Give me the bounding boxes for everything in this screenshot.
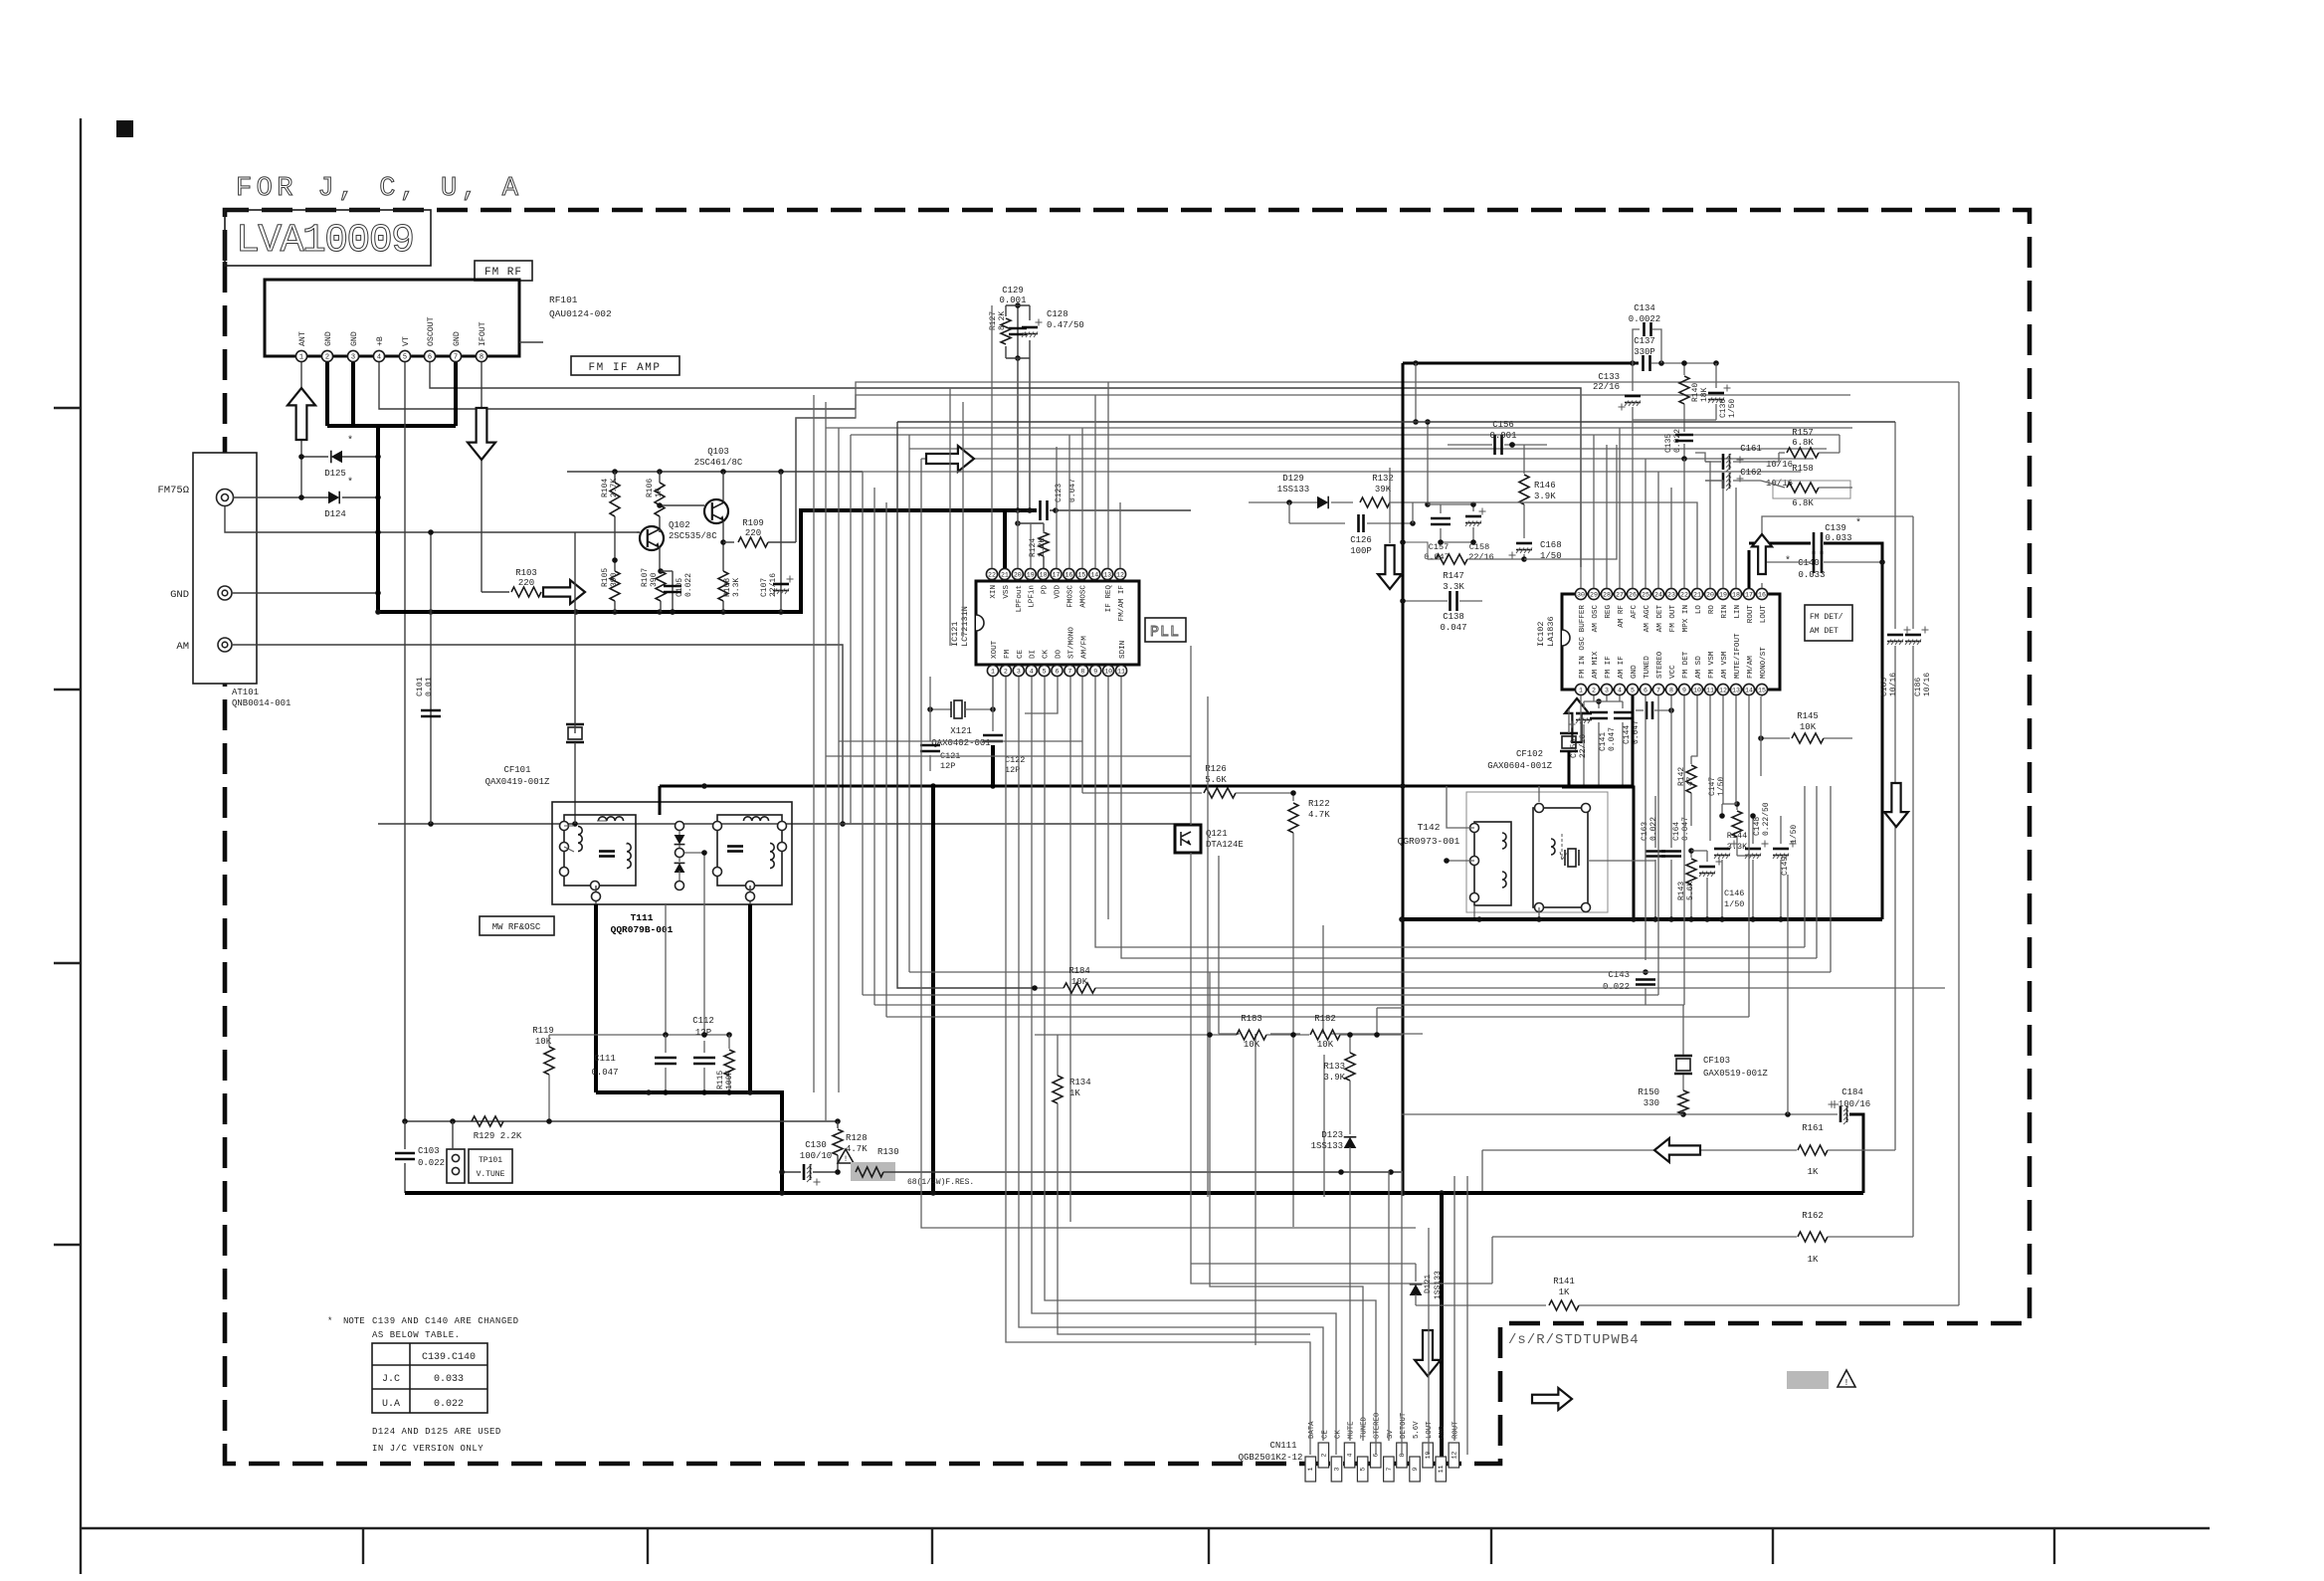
transistor Q102 — [637, 520, 717, 571]
svg-text:0.001: 0.001 — [999, 296, 1026, 305]
wire OSCOUT pin6 — [430, 362, 1581, 567]
svg-text:AMOSC: AMOSC — [1079, 585, 1087, 608]
svg-text:DETOUT: DETOUT — [1400, 1412, 1408, 1439]
wire — [873, 488, 875, 1005]
diode varactor D111 — [675, 822, 685, 849]
svg-text:2: 2 — [1320, 1453, 1327, 1457]
wire net — [1438, 539, 1476, 545]
capacitor C184 — [1680, 1087, 1870, 1193]
resistor R145 — [1758, 711, 1852, 743]
svg-text:18: 18 — [1040, 571, 1048, 578]
signal arrow down — [1884, 783, 1908, 827]
wire GND pin7 thick — [454, 362, 458, 426]
svg-text:1: 1 — [1579, 687, 1583, 693]
svg-text:2SC535/8C: 2SC535/8C — [669, 531, 717, 541]
svg-text:22/16: 22/16 — [1593, 382, 1620, 392]
wire — [1722, 695, 1724, 804]
wire — [826, 755, 1191, 757]
svg-text:1K: 1K — [655, 488, 664, 497]
svg-text:1SS133: 1SS133 — [1311, 1141, 1343, 1151]
capacitor C107 — [760, 472, 794, 612]
svg-text:GAX0604-001Z: GAX0604-001Z — [1487, 761, 1552, 771]
wire — [1683, 695, 1685, 1005]
svg-text:100/10: 100/10 — [800, 1151, 832, 1161]
svg-text:0.001: 0.001 — [1489, 431, 1516, 441]
wire heavy vertical — [1400, 363, 1406, 1196]
svg-text:FM/AM: FM/AM — [1747, 656, 1755, 679]
svg-text:17: 17 — [1745, 591, 1753, 598]
svg-text:!: ! — [1843, 1378, 1848, 1388]
wire — [1657, 472, 1659, 588]
crystal X121 — [927, 700, 996, 748]
wire — [1121, 677, 1817, 958]
wire — [1081, 677, 1083, 793]
svg-text:R122: R122 — [1308, 799, 1330, 809]
svg-text:20: 20 — [1706, 591, 1714, 598]
svg-text:SV: SV — [1387, 1430, 1395, 1439]
capacitor C157 — [1424, 504, 1451, 562]
label /s/R/STDTUPWB4 — [1508, 1332, 1640, 1348]
svg-text:CN111: CN111 — [1269, 1441, 1296, 1451]
capacitor C144 — [1614, 701, 1641, 787]
wire — [1709, 695, 1711, 841]
svg-text:7: 7 — [454, 354, 458, 362]
svg-text:TUNED: TUNED — [1361, 1416, 1369, 1439]
capacitor C101 — [416, 529, 441, 824]
svg-text:C184: C184 — [1841, 1087, 1863, 1097]
svg-text:FMOSC: FMOSC — [1066, 585, 1074, 608]
svg-text:CK: CK — [1043, 649, 1051, 659]
capacitor C123 — [1041, 479, 1192, 520]
svg-text:R183: R183 — [1241, 1014, 1262, 1024]
svg-text:0.022: 0.022 — [434, 1399, 464, 1410]
svg-text:QQR079B-001: QQR079B-001 — [611, 924, 674, 935]
svg-text:12: 12 — [1719, 687, 1727, 693]
svg-text:0.022: 0.022 — [1673, 429, 1682, 453]
wire — [1735, 695, 1737, 804]
svg-text:C168: C168 — [1540, 540, 1562, 550]
svg-text:11: 11 — [1438, 1466, 1445, 1474]
board outline dashed border — [225, 210, 2030, 1464]
wire — [1388, 1171, 1390, 1441]
testpoint TP101 — [447, 1121, 512, 1183]
svg-text:15: 15 — [1758, 687, 1766, 693]
wire bus — [825, 402, 827, 756]
svg-text:R146: R146 — [1534, 481, 1556, 491]
svg-text:RO: RO — [1708, 605, 1716, 615]
wire — [908, 435, 910, 972]
svg-text:U.A: U.A — [382, 1399, 400, 1410]
svg-text:28: 28 — [1603, 591, 1611, 598]
svg-text:5.6K: 5.6K — [1686, 882, 1695, 900]
svg-text:AM SD: AM SD — [1695, 656, 1703, 679]
svg-text:10: 10 — [1104, 668, 1112, 675]
svg-text:22: 22 — [988, 571, 996, 578]
svg-text:9: 9 — [1682, 687, 1686, 693]
wire heavy audio bus — [405, 1190, 1863, 1196]
svg-text:R158: R158 — [1792, 464, 1814, 474]
frame tick — [54, 689, 81, 691]
wire lower rail — [378, 821, 1191, 827]
svg-text:4: 4 — [1030, 668, 1034, 675]
wire — [1466, 1176, 1468, 1455]
terminal AT101 box — [193, 453, 257, 684]
resistor R144 — [1727, 801, 1748, 856]
wire — [1095, 987, 1945, 989]
wire — [1816, 786, 1818, 958]
capacitor C149 — [1773, 816, 1799, 919]
svg-text:220: 220 — [745, 528, 761, 538]
frame tick — [54, 407, 81, 409]
resistor R141 — [1416, 1277, 1959, 1310]
svg-text:10K: 10K — [1317, 1040, 1334, 1050]
wire xtal left — [929, 709, 931, 741]
capacitor C148 — [1745, 802, 1771, 919]
svg-text:STEREO: STEREO — [1656, 651, 1664, 679]
svg-text:20: 20 — [1014, 571, 1022, 578]
svg-text:7: 7 — [1067, 668, 1071, 675]
resistor R147 — [1400, 539, 1428, 545]
wire FM75 to D124 — [233, 494, 328, 500]
caution gray box — [1787, 1371, 1829, 1389]
filter CF103 — [1674, 1005, 1768, 1087]
svg-text:16: 16 — [1758, 591, 1766, 598]
label AT101 — [232, 688, 290, 708]
svg-text:ST/MONO: ST/MONO — [1067, 627, 1075, 659]
svg-text:1: 1 — [299, 354, 303, 362]
svg-text:8: 8 — [480, 354, 484, 362]
capacitor C186 — [1905, 516, 1932, 1237]
wire — [962, 402, 964, 637]
svg-text:C140: C140 — [1798, 558, 1820, 568]
svg-text:V.TUNE: V.TUNE — [477, 1170, 505, 1179]
svg-text:DO: DO — [1056, 649, 1064, 659]
wire — [1804, 786, 1806, 947]
wire — [1190, 646, 1192, 825]
svg-text:MUTE: MUTE — [1348, 1421, 1356, 1439]
resistor R182 — [1290, 1014, 1403, 1050]
svg-text:5: 5 — [403, 354, 407, 362]
transformer T142 outer box — [1466, 792, 1608, 912]
svg-text:*: * — [347, 477, 353, 489]
frame tick — [362, 1528, 364, 1564]
wire VT pin5 — [404, 362, 406, 1121]
resistor R133 — [1323, 1032, 1355, 1134]
wire — [825, 756, 827, 1121]
svg-text:C164: C164 — [1672, 822, 1681, 841]
svg-text:4.7K: 4.7K — [1308, 810, 1330, 820]
wire — [1657, 695, 1659, 995]
diode D123 — [1311, 1130, 1357, 1441]
wire — [1606, 695, 1608, 701]
svg-text:0.22/50: 0.22/50 — [1762, 802, 1771, 836]
note table — [372, 1343, 487, 1413]
svg-text:LVA10009: LVA10009 — [236, 219, 421, 264]
wire IFOUT pin8 — [481, 362, 483, 592]
frame tick — [1208, 1528, 1210, 1564]
diode D125 — [298, 435, 381, 479]
resistor R142 — [1677, 756, 1696, 826]
diode D129 — [1249, 474, 1353, 508]
page frame left border line — [80, 118, 82, 1574]
capacitor C138 — [1400, 591, 1482, 633]
wire RF101 right stub — [519, 341, 543, 343]
label T142 — [1398, 822, 1460, 847]
svg-text:J.C: J.C — [382, 1374, 400, 1385]
frame tick — [2053, 1528, 2055, 1564]
svg-text:DI: DI — [1030, 650, 1038, 659]
svg-text:STEREO: STEREO — [1374, 1412, 1382, 1439]
wire — [1095, 677, 1805, 947]
note text2 — [372, 1427, 501, 1454]
module RF101 box — [265, 280, 519, 356]
svg-text:0.033: 0.033 — [434, 1374, 464, 1385]
svg-text:16: 16 — [1065, 571, 1072, 578]
svg-text:C148: C148 — [1753, 817, 1762, 836]
svg-text:12P: 12P — [695, 1028, 711, 1038]
svg-text:5: 5 — [1631, 687, 1635, 693]
svg-text:1K: 1K — [1069, 1088, 1080, 1098]
wire GND to bus — [232, 590, 381, 596]
svg-text:0.022: 0.022 — [684, 573, 693, 597]
svg-text:/s/R/STDTUPWB4: /s/R/STDTUPWB4 — [1508, 1332, 1640, 1348]
wire ANT pin1 — [300, 362, 302, 497]
svg-text:C146: C146 — [1724, 889, 1744, 898]
svg-text:C149: C149 — [1781, 857, 1790, 876]
svg-text:VCC: VCC — [1669, 665, 1677, 679]
wire net — [1447, 444, 1449, 446]
wire net — [1491, 1237, 1493, 1284]
wire — [863, 994, 1658, 996]
svg-text:MPX IN: MPX IN — [1682, 605, 1690, 632]
svg-text:C186: C186 — [1914, 678, 1923, 696]
svg-text:R140: R140 — [1691, 383, 1700, 402]
capacitor C150 — [1569, 701, 1593, 787]
wire T142 bottom — [1474, 905, 1539, 919]
wire MW bottom bus thick — [596, 1089, 782, 1193]
svg-text:8: 8 — [1080, 668, 1084, 675]
wire — [1094, 395, 1096, 568]
resistor R132 — [1360, 474, 1413, 507]
IC102 top pins — [1575, 588, 1768, 650]
svg-text:C111: C111 — [594, 1054, 616, 1064]
wire — [991, 305, 993, 568]
svg-text:X121: X121 — [950, 726, 972, 736]
svg-text:OSC BUFFER: OSC BUFFER — [1579, 605, 1587, 651]
signal arrow right — [1532, 1388, 1572, 1410]
wire — [885, 502, 887, 1017]
svg-text:D124 AND D125 ARE USED: D124 AND D125 ARE USED — [372, 1427, 501, 1437]
wire — [850, 435, 852, 824]
wire AM line — [232, 645, 846, 827]
svg-text:2: 2 — [1592, 687, 1596, 693]
resistor R183 — [1207, 1014, 1309, 1050]
svg-text:39K: 39K — [1375, 485, 1392, 494]
wire — [1632, 420, 1634, 588]
wire T111 left terminal — [592, 886, 601, 904]
svg-text:C129: C129 — [1002, 286, 1024, 296]
wire bus — [909, 448, 1827, 450]
svg-text:RIN: RIN — [1721, 605, 1729, 619]
wire — [1069, 677, 1071, 1222]
wire — [1453, 1176, 1455, 1441]
wire — [1735, 488, 1737, 588]
label FM RF — [475, 261, 532, 281]
wire — [1191, 853, 1492, 1284]
resistor R130 — [851, 1147, 1403, 1187]
wire right rail2 — [1958, 382, 1960, 1305]
svg-text:IF REQ: IF REQ — [1105, 585, 1113, 613]
page frame bottom border line — [81, 1527, 2210, 1529]
svg-text:R145: R145 — [1797, 711, 1819, 721]
svg-text:R107: R107 — [641, 568, 650, 587]
svg-text:25: 25 — [1642, 591, 1649, 598]
filter CF101 — [485, 532, 584, 824]
svg-text:QAX0419-001Z: QAX0419-001Z — [485, 777, 550, 787]
svg-text:C126: C126 — [1350, 535, 1372, 545]
svg-text:AM OSC: AM OSC — [1592, 605, 1600, 633]
svg-text:3.3K: 3.3K — [732, 578, 741, 597]
svg-text:220: 220 — [518, 578, 534, 588]
svg-text:LA1836: LA1836 — [1546, 616, 1556, 647]
wire — [1705, 462, 1710, 588]
svg-text:19: 19 — [1027, 571, 1035, 578]
svg-text:4: 4 — [1347, 1453, 1354, 1457]
svg-text:QGR0973-001: QGR0973-001 — [1398, 836, 1460, 847]
wire FM ground bus thick — [375, 510, 1037, 615]
svg-text:!: ! — [844, 1155, 849, 1164]
svg-text:R133: R133 — [1323, 1062, 1345, 1072]
wire net — [1839, 435, 1840, 453]
wire — [1331, 1033, 1423, 1035]
wire bus — [851, 434, 1840, 436]
label MW RF&OSC — [480, 916, 554, 935]
svg-text:LO: LO — [1695, 605, 1703, 615]
svg-text:IC102: IC102 — [1536, 621, 1546, 647]
svg-text:ROUT: ROUT — [1747, 605, 1755, 624]
IC121 top pins — [986, 568, 1126, 621]
svg-text:CF102: CF102 — [1516, 749, 1543, 759]
signal arrow down — [1378, 545, 1402, 589]
wire — [813, 395, 815, 1092]
svg-text:3: 3 — [1017, 668, 1021, 675]
wire net — [549, 1032, 732, 1038]
svg-text:*: * — [327, 1316, 332, 1326]
svg-text:R106: R106 — [646, 479, 655, 497]
svg-text:LPFin: LPFin — [1029, 585, 1037, 608]
svg-text:MW RF&OSC: MW RF&OSC — [492, 922, 541, 932]
svg-text:AM DET: AM DET — [1810, 627, 1839, 636]
svg-text:6.8K: 6.8K — [1792, 438, 1814, 448]
svg-text:C133: C133 — [1598, 372, 1620, 382]
wire — [1030, 523, 1032, 568]
svg-text:12P: 12P — [1005, 765, 1020, 775]
svg-text:0.47/50: 0.47/50 — [1047, 320, 1084, 330]
resistor R103 — [482, 568, 541, 597]
svg-text:FM RF: FM RF — [484, 267, 522, 279]
svg-text:QAU0124-002: QAU0124-002 — [549, 308, 612, 319]
svg-text:5.6V: 5.6V — [1413, 1421, 1421, 1439]
resistor R146 — [1509, 442, 1556, 534]
node bias top — [567, 469, 863, 475]
svg-text:2: 2 — [1004, 668, 1008, 675]
svg-text:LC72131N: LC72131N — [960, 606, 970, 647]
svg-text:10K: 10K — [1800, 722, 1817, 732]
T111 secondary — [713, 815, 787, 890]
wire net — [1524, 445, 1617, 559]
frame tick — [1490, 1528, 1492, 1564]
wire — [1705, 481, 1723, 588]
wire T142 net2 — [1538, 786, 1540, 802]
svg-text:R129 2.2K: R129 2.2K — [474, 1131, 522, 1141]
svg-text:SDIN: SDIN — [1119, 641, 1127, 659]
svg-text:CF101: CF101 — [503, 765, 530, 775]
wire — [1322, 925, 1324, 1034]
svg-text:R162: R162 — [1802, 1211, 1824, 1221]
svg-text:IN J/C VERSION ONLY: IN J/C VERSION ONLY — [372, 1444, 484, 1454]
svg-text:VSS: VSS — [1003, 585, 1011, 599]
wire — [1218, 856, 1220, 1034]
resistor R157 — [1761, 428, 1840, 462]
svg-text:22/16: 22/16 — [769, 573, 778, 597]
wire bus — [921, 458, 1814, 460]
svg-text:C105: C105 — [676, 578, 684, 597]
wire — [1017, 510, 1019, 568]
wire net — [1636, 701, 1674, 719]
wire — [1401, 1171, 1403, 1455]
wire — [1377, 1007, 1403, 1009]
svg-text:330P: 330P — [1634, 347, 1655, 357]
svg-text:9: 9 — [1412, 1467, 1419, 1471]
wire T142 net top — [1447, 786, 1474, 828]
wire — [1632, 695, 1635, 787]
svg-text:FM IF AMP: FM IF AMP — [589, 362, 662, 374]
svg-text:ROUT: ROUT — [1452, 1421, 1459, 1439]
svg-text:1: 1 — [1307, 1467, 1314, 1471]
resistor R119 — [532, 1026, 554, 1121]
terminal GND — [170, 586, 232, 601]
svg-text:MUTE/IFOUT: MUTE/IFOUT — [1734, 633, 1742, 679]
wire — [1428, 1228, 1430, 1455]
svg-text:QNB0014-001: QNB0014-001 — [232, 698, 290, 708]
capacitor C137 — [1634, 336, 1719, 371]
svg-text:3.3K: 3.3K — [1443, 582, 1464, 592]
signal arrow right — [543, 580, 585, 604]
label IC102 — [1536, 616, 1556, 647]
svg-text:C139: C139 — [1825, 523, 1846, 533]
wire net — [1719, 804, 1756, 819]
svg-text:8: 8 — [1669, 687, 1673, 693]
frame tick — [931, 1528, 933, 1564]
wire — [992, 677, 994, 709]
svg-text:*: * — [1785, 555, 1791, 567]
resistor R158 — [1761, 464, 1852, 508]
svg-text:0.0022: 0.0022 — [1629, 314, 1660, 324]
svg-text:FM75Ω: FM75Ω — [157, 485, 189, 496]
wire +B pin4 — [379, 362, 856, 409]
svg-text:7: 7 — [1386, 1467, 1393, 1471]
connector CN111 pins — [1305, 1412, 1459, 1482]
svg-text:GND: GND — [1631, 665, 1639, 679]
svg-text:0.047: 0.047 — [1681, 817, 1690, 841]
wire thick to ground — [930, 783, 936, 1193]
svg-text:C136: C136 — [1719, 399, 1728, 418]
svg-text:R184: R184 — [1068, 966, 1090, 976]
svg-text:14: 14 — [1090, 571, 1098, 578]
resistor R124 — [1018, 523, 1049, 568]
svg-text:2SC461/8C: 2SC461/8C — [694, 458, 743, 468]
label FM IF AMP — [571, 356, 679, 375]
